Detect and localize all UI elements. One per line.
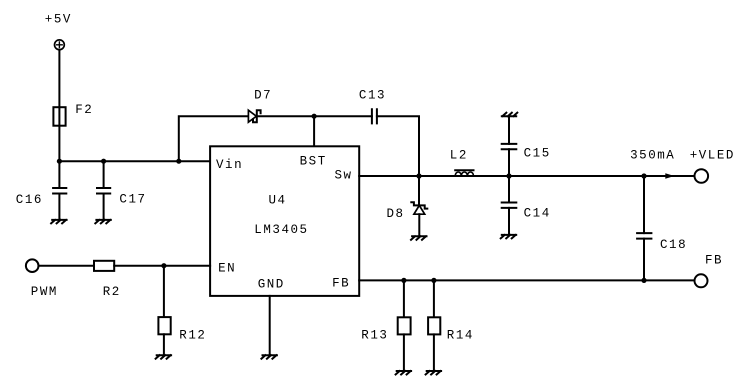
ground C15 (flipped) xyxy=(502,113,518,117)
wire +5V terminal to fuse and bus xyxy=(58,50,60,162)
wire PWM to R2 xyxy=(39,265,95,267)
ground D8 xyxy=(411,236,427,240)
svg-text:U4: U4 xyxy=(269,194,287,208)
svg-text:D7: D7 xyxy=(254,89,272,103)
wire C14 to ground xyxy=(508,208,510,235)
ground C14 xyxy=(501,235,517,239)
diode D8 (schottky catch) xyxy=(411,202,427,214)
wire BST junction down to pin xyxy=(313,116,315,146)
capacitor C15 xyxy=(502,144,517,149)
svg-text:+5V: +5V xyxy=(45,13,72,27)
svg-text:F2: F2 xyxy=(75,103,93,117)
wire R12 to ground xyxy=(163,334,165,355)
resistor R13 xyxy=(398,317,411,334)
wire Sw to D8 xyxy=(418,176,420,205)
svg-text:C17: C17 xyxy=(119,193,146,207)
capacitor C18 xyxy=(637,233,651,239)
wire R14 to ground xyxy=(433,334,435,371)
wire FB to R14 xyxy=(433,280,435,317)
wire GND pin to ground xyxy=(269,296,271,355)
wire C18 vertical xyxy=(643,176,645,233)
svg-text:R2: R2 xyxy=(103,285,121,299)
ground R14 xyxy=(426,371,442,375)
svg-text:C13: C13 xyxy=(359,89,386,103)
svg-text:GND: GND xyxy=(258,278,285,292)
wire junction to R12 xyxy=(163,266,165,317)
svg-text:FB: FB xyxy=(332,276,350,290)
wire Sw line xyxy=(359,175,694,177)
junction FB/R13 xyxy=(401,278,406,283)
wire BST junction to C13 xyxy=(314,115,372,117)
wire FB to R13 xyxy=(403,280,405,317)
svg-text:Sw: Sw xyxy=(335,169,353,183)
resistor R2 xyxy=(94,261,114,271)
svg-text:R13: R13 xyxy=(361,329,388,343)
svg-text:Vin: Vin xyxy=(216,158,243,172)
wire bus to C16 xyxy=(58,161,60,188)
svg-text:LM3405: LM3405 xyxy=(254,223,308,237)
svg-text:L2: L2 xyxy=(450,148,468,162)
wire node to C15 xyxy=(508,149,510,176)
svg-text:+VLED: +VLED xyxy=(690,149,735,163)
capacitor C16 xyxy=(53,188,66,194)
wire R2 to EN pin xyxy=(114,265,210,267)
ground R13 xyxy=(396,371,412,375)
wire C18 to FB line xyxy=(643,239,645,281)
wire input bus xyxy=(59,160,210,162)
junction Sw/D8 xyxy=(416,173,421,178)
resistor R14 xyxy=(428,317,440,334)
wire C15 to top ground xyxy=(508,116,510,144)
current arrow 350mA xyxy=(665,173,674,179)
svg-text:C15: C15 xyxy=(524,147,551,161)
svg-text:FB: FB xyxy=(705,254,723,268)
junction EN/R12 xyxy=(161,263,166,268)
wire FB line xyxy=(359,279,694,281)
power terminal +5V xyxy=(55,40,65,50)
svg-text:R14: R14 xyxy=(447,329,474,343)
svg-text:C16: C16 xyxy=(16,193,43,207)
svg-text:BST: BST xyxy=(300,155,327,169)
junction Sw/C15/C14 xyxy=(506,173,511,178)
wire D8 to ground xyxy=(418,214,420,236)
capacitor C14 xyxy=(502,203,517,208)
svg-text:C18: C18 xyxy=(660,238,687,252)
junction at C17 xyxy=(101,159,106,164)
wire D7 to BST junction xyxy=(257,115,314,117)
wire node to C14 xyxy=(508,176,510,203)
ground C17 xyxy=(95,220,111,224)
inductor L2 xyxy=(455,170,473,176)
capacitor C13 xyxy=(372,109,377,123)
op-amp U4 IC box xyxy=(210,146,359,296)
svg-text:350mA: 350mA xyxy=(630,149,675,163)
svg-text:EN: EN xyxy=(218,261,236,275)
terminal FB xyxy=(695,274,708,287)
junction BST xyxy=(312,114,317,119)
svg-text:D8: D8 xyxy=(387,207,405,221)
terminal PWM xyxy=(26,259,39,272)
junction at D7 branch xyxy=(176,159,181,164)
fuse F2 xyxy=(53,107,65,126)
wire C16 to ground xyxy=(58,194,60,220)
wire bus to C17 xyxy=(103,161,105,188)
terminal +VLED xyxy=(695,169,709,183)
ground GND pin xyxy=(261,355,277,359)
resistor R12 xyxy=(158,317,170,334)
wire C17 to ground xyxy=(103,194,105,220)
svg-text:PWM: PWM xyxy=(31,285,58,299)
svg-text:R12: R12 xyxy=(179,329,206,343)
capacitor C17 xyxy=(97,188,110,194)
junction output/C18 xyxy=(641,173,646,178)
ground C16 xyxy=(51,220,67,224)
wire C13 to Sw node xyxy=(377,116,419,176)
ground R12 xyxy=(156,355,172,359)
wire bus up to D7 xyxy=(179,116,249,161)
junction FB/C18 xyxy=(641,278,646,283)
svg-text:C14: C14 xyxy=(524,207,551,221)
junction FB/R14 xyxy=(431,278,436,283)
junction at F2/C16 xyxy=(57,159,62,164)
diode D7 (schottky) xyxy=(248,110,260,122)
wire R13 to ground xyxy=(403,334,405,371)
